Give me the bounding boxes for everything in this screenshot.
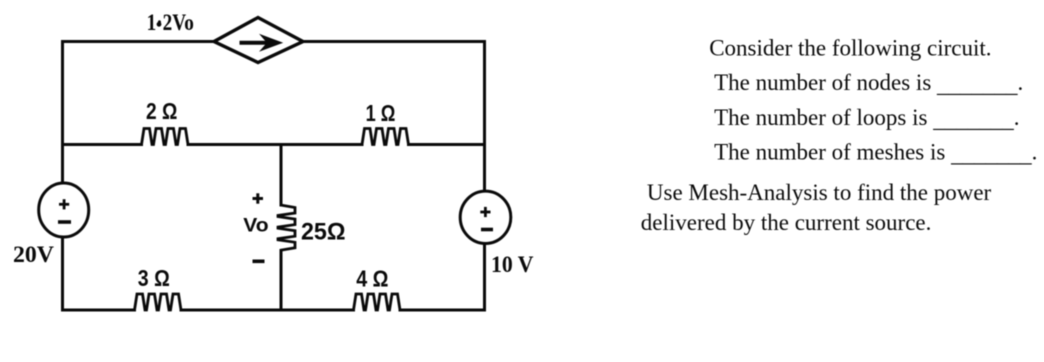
V2 plus sign [480, 207, 490, 217]
wire left lower [61, 236, 64, 310]
svg-text:delivered by the current sourc: delivered by the current source. [641, 210, 932, 235]
wire right upper [483, 42, 486, 193]
resistor R 2ohm zigzag [142, 129, 189, 145]
svg-text:4 Ω: 4 Ω [356, 265, 388, 291]
wire bottom center [181, 309, 354, 312]
svg-text:1 Ω: 1 Ω [366, 100, 396, 126]
Vo minus sign [253, 259, 265, 263]
dependent current source diamond [214, 18, 303, 63]
svg-text:The number of meshes is ______: The number of meshes is _______. [714, 140, 1037, 167]
V2 minus sign [481, 228, 493, 232]
voltage source V2 10V circle [460, 191, 511, 243]
wire right lower [483, 242, 486, 310]
svg-text:25Ω: 25Ω [301, 219, 346, 246]
current source arrow [240, 41, 271, 45]
voltage source V1 20V circle [39, 183, 89, 237]
wire center vertical lower [280, 251, 283, 311]
wire bottom left [63, 309, 135, 312]
V1 plus sign [59, 199, 69, 209]
resistor R 25ohm vertical zigzag [278, 205, 295, 250]
svg-text:1·2Vo: 1·2Vo [147, 10, 194, 35]
svg-text:The number of nodes is _______: The number of nodes is _______. [714, 70, 1023, 97]
wire middle right [409, 143, 485, 146]
wire bottom right [400, 309, 485, 312]
wire middle center [188, 143, 362, 146]
resistor R 1ohm zigzag [362, 129, 409, 145]
svg-text:20V: 20V [13, 242, 54, 267]
svg-text:The number of loops is _______: The number of loops is _______. [714, 105, 1019, 132]
wire left upper [61, 42, 64, 185]
svg-text:2 Ω: 2 Ω [146, 98, 177, 124]
svg-text:Consider the following circuit: Consider the following circuit. [709, 35, 991, 60]
svg-text:Vo: Vo [243, 216, 268, 237]
svg-text:3 Ω: 3 Ω [138, 265, 170, 291]
svg-text:10 V: 10 V [491, 252, 534, 277]
wire middle left [63, 143, 142, 146]
V1 minus sign [58, 220, 71, 224]
resistor R 4ohm zigzag [354, 294, 401, 310]
resistor R 3ohm zigzag [135, 294, 182, 310]
Vo plus sign [253, 193, 264, 203]
wire center vertical upper [280, 145, 283, 206]
wire top [63, 40, 485, 43]
svg-text:Use Mesh-Analysis to find the: Use Mesh-Analysis to find the power [647, 180, 992, 205]
